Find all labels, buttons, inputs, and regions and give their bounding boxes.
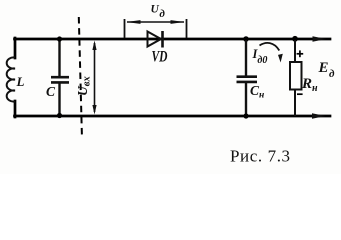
wire left vertical bottom segment bbox=[14, 101, 17, 117]
svg-text:Rн: Rн bbox=[301, 76, 318, 94]
svg-text:Рис. 7.3: Рис. 7.3 bbox=[230, 147, 291, 166]
wire left vertical top segment bbox=[14, 38, 17, 58]
diode VD bbox=[148, 31, 163, 48]
wire bottom horizontal bbox=[15, 115, 331, 118]
svg-text:VD: VD bbox=[152, 49, 168, 66]
node: Cn top junction bbox=[243, 36, 249, 42]
svg-text:C: C bbox=[46, 84, 56, 99]
Id0 curved arrow bbox=[260, 43, 283, 63]
label minus bbox=[297, 93, 303, 95]
arrow bottom-right output bbox=[312, 113, 326, 119]
Ud dimension line with outward arrowheads bbox=[127, 20, 185, 24]
node: C top junction bbox=[57, 36, 62, 41]
wire top horizontal bbox=[15, 38, 331, 41]
inductor L bbox=[7, 57, 15, 101]
Ud dimension: left tick bbox=[124, 19, 126, 38]
node: C bottom junction bbox=[57, 113, 62, 118]
svg-text:Uвх: Uвх bbox=[75, 76, 93, 96]
Uvx dimension arrow (vertical, double-headed) bbox=[92, 41, 96, 115]
dashed section line bbox=[79, 17, 82, 139]
svg-text:Eд: Eд bbox=[318, 60, 336, 80]
svg-text:Iд0: Iд0 bbox=[252, 47, 268, 66]
label plus bbox=[297, 50, 304, 57]
label Uvx (rotated) bbox=[75, 76, 93, 96]
resistor Rn bbox=[290, 40, 302, 116]
node: Cn bottom junction bbox=[243, 113, 248, 118]
svg-text:L: L bbox=[16, 74, 25, 89]
capacitor C bbox=[51, 40, 69, 115]
Ud dimension: right tick bbox=[186, 19, 188, 38]
svg-text:Uд: Uд bbox=[151, 4, 166, 21]
node: Rn top junction bbox=[292, 36, 298, 42]
capacitor Cn bbox=[237, 40, 258, 115]
svg-text:Cн: Cн bbox=[250, 83, 264, 101]
arrow top-right output bbox=[313, 36, 327, 42]
